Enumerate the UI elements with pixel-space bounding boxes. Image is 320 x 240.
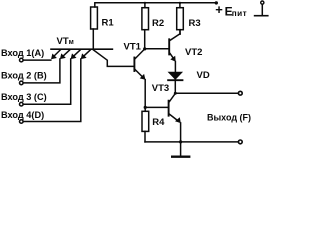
resistor R3 — [177, 2, 184, 35]
input terminal 1 — [20, 58, 24, 62]
wire VT3 emitter riser — [180, 123, 182, 142]
node VT1 collector / R2 / VT2 base junction — [143, 47, 146, 50]
svg-text:VTм: VTм — [57, 36, 74, 47]
wire input 1 — [23, 59, 51, 61]
wire VT1 emitter riser — [144, 80, 146, 108]
svg-text:пит: пит — [232, 9, 247, 18]
wire input 2 — [23, 59, 60, 83]
svg-text:Вход 4(D): Вход 4(D) — [1, 110, 44, 120]
wire output — [175, 92, 238, 94]
wire input 3 — [23, 59, 70, 104]
svg-text:R2: R2 — [152, 18, 164, 29]
svg-text:VT2: VT2 — [185, 47, 202, 58]
svg-text:VT1: VT1 — [124, 41, 142, 52]
input terminal 2 — [20, 81, 24, 85]
node VT1 emitter / R4 / VT3 base junction — [144, 106, 147, 109]
transistor VT2 — [169, 30, 180, 62]
wire top supply rail — [96, 2, 217, 4]
transistor VTm emitter 2 — [60, 50, 70, 59]
transistor VTm emitter 4 — [81, 50, 91, 59]
resistor R1 — [91, 3, 98, 49]
svg-text:R3: R3 — [189, 18, 201, 29]
svg-text:Вход 3 (C): Вход 3 (C) — [1, 92, 47, 102]
wire VT3 base lead — [145, 106, 168, 108]
resistor R4 — [142, 107, 149, 141]
input terminal 3 — [20, 102, 24, 106]
transistor VT3 — [169, 93, 181, 123]
transistor VT1 — [134, 49, 145, 80]
svg-text:R1: R1 — [102, 17, 115, 28]
svg-text:Вход 2 (B): Вход 2 (B) — [1, 70, 47, 80]
ground — [172, 142, 189, 157]
node rail end dot — [215, 1, 218, 4]
wire VT2 emitter to VD anode — [174, 62, 176, 73]
node output junction — [174, 92, 177, 95]
output terminal upper — [238, 91, 242, 95]
transistor VTm multi-emitter: base bar — [51, 48, 112, 50]
svg-text:VD: VD — [197, 70, 210, 81]
diode VD — [168, 72, 182, 93]
input terminal 4 — [20, 120, 24, 124]
wire VT2 base lead — [145, 48, 169, 50]
wire VTm collector to VT1 base — [94, 50, 134, 66]
svg-text:R4: R4 — [152, 117, 165, 128]
resistor R2 — [142, 2, 149, 49]
wire bottom rail — [145, 141, 239, 143]
svg-text:Выход (F): Выход (F) — [207, 112, 251, 122]
node bottom rail / ground junction — [179, 140, 182, 143]
wire input 4 — [23, 59, 81, 122]
svg-text:+: + — [215, 2, 223, 17]
power +E terminal symbol — [255, 1, 268, 16]
svg-text:Вход 1(A): Вход 1(A) — [1, 48, 44, 58]
transistor VTm emitter 3 — [71, 50, 81, 59]
svg-text:VT3: VT3 — [152, 83, 169, 94]
transistor VTm emitter 1 — [51, 50, 60, 59]
output terminal lower — [238, 140, 242, 144]
